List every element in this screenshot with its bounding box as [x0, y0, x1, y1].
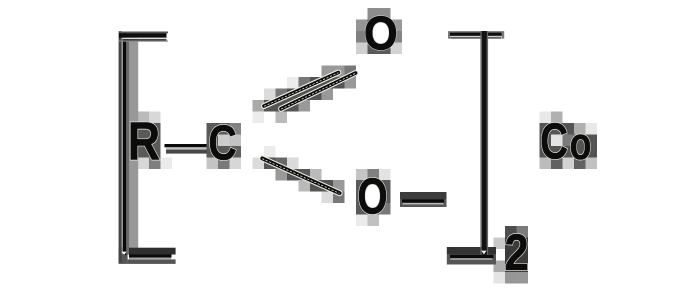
atom label O (ester oxygen): [365, 184, 380, 208]
bond O-Co (dash): [400, 192, 447, 207]
left bracket: [119, 31, 176, 264]
atom label C (carboxyl carbon): [210, 125, 236, 160]
single bond C-O: [262, 158, 339, 193]
double bond C=O line 2: [281, 73, 356, 109]
atom label R: [131, 122, 159, 159]
subscript 2: [506, 234, 527, 270]
double bond C=O line 1: [264, 73, 338, 107]
atom label O (carbonyl oxygen): [373, 22, 389, 44]
bond R-C: [165, 144, 208, 154]
metal label Co - o: [571, 134, 590, 159]
right bracket: [447, 31, 504, 265]
metal label Co - C: [542, 123, 567, 159]
low-res gray halo blocks: [126, 8, 597, 284]
